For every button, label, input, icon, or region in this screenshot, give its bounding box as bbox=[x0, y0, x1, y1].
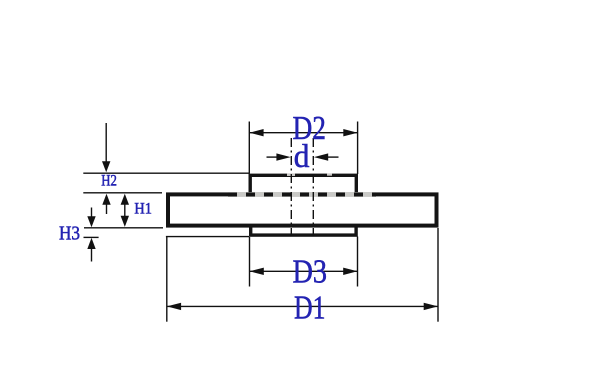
H3 upper arrow (pointing down) bbox=[91, 208, 93, 218]
D3 arrowhead right bbox=[343, 268, 357, 275]
watermark band over flange top edge bbox=[228, 192, 376, 197]
flange body bbox=[168, 194, 437, 225]
d arrow right (pointing left) bbox=[326, 156, 339, 158]
D1 arrowhead left bbox=[167, 303, 181, 310]
D1 arrowhead right bbox=[424, 303, 438, 310]
svg-text:D3: D3 bbox=[293, 254, 328, 291]
H1 double arrow bbox=[124, 202, 126, 219]
D3 extension line left bbox=[249, 237, 251, 287]
D1 extension line right bbox=[437, 228, 439, 322]
D2 extension line left bbox=[248, 122, 250, 174]
hole centerline left bbox=[290, 138, 292, 236]
svg-text:d: d bbox=[294, 139, 310, 175]
H2 extension line (flange top, extended left) bbox=[83, 192, 162, 194]
watermark patch 2 on boss top bbox=[327, 173, 332, 175]
svg-text:H2: H2 bbox=[101, 173, 117, 190]
D3 dimension line bbox=[250, 270, 358, 272]
D2 arrowhead left bbox=[249, 129, 263, 136]
watermark patch on boss top bbox=[287, 173, 295, 176]
D1 dimension line bbox=[167, 305, 438, 307]
D3 extension line right bbox=[357, 237, 359, 287]
H3 extension line (boss bottom, short left piece) bbox=[84, 236, 99, 238]
svg-text:D1: D1 bbox=[294, 289, 326, 326]
D2 dimension line bbox=[249, 132, 357, 134]
H3 lower arrow (pointing up) bbox=[91, 248, 93, 262]
H3 extension line (boss bottom, right piece) bbox=[166, 236, 249, 238]
bottom boss bbox=[251, 218, 356, 235]
watermark dashes (flange line showing through) bbox=[228, 193, 376, 197]
top boss (hub) bbox=[250, 175, 356, 200]
H3 extension line (flange bottom, extended left) bbox=[84, 227, 163, 229]
hole centerline right bbox=[312, 138, 314, 236]
D1 extension line left bbox=[166, 237, 168, 322]
svg-text:H1: H1 bbox=[134, 201, 152, 218]
H2 extension line (boss top, extended left) bbox=[83, 172, 249, 174]
H2 lower arrow (pointing up) bbox=[106, 203, 108, 214]
d arrow left (pointing right) bbox=[267, 156, 280, 158]
svg-text:H3: H3 bbox=[59, 223, 80, 245]
D3 arrowhead left bbox=[250, 268, 264, 275]
D2 extension line right bbox=[357, 122, 359, 175]
H2 upper arrow (long, pointing down) bbox=[105, 123, 107, 163]
D2 arrowhead right bbox=[343, 129, 357, 136]
